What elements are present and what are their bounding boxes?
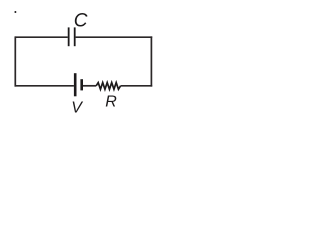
wire battery to resistor	[83, 85, 96, 87]
svg-text:R: R	[105, 94, 117, 111]
battery V short plate	[80, 79, 83, 90]
wire bottom-left (battery to left corner)	[15, 85, 74, 87]
stray dot	[14, 11, 16, 13]
wire right vertical	[150, 36, 152, 86]
resistor R zigzag	[96, 83, 120, 90]
capacitor C right plate	[74, 27, 76, 46]
wire top-left (node between C and left branch)	[15, 36, 68, 38]
svg-text:C: C	[74, 11, 88, 32]
capacitor C left plate	[68, 27, 70, 46]
wire left vertical	[14, 36, 16, 86]
wire top-right	[76, 36, 153, 38]
wire resistor to right corner	[121, 85, 153, 87]
battery V long plate	[74, 73, 77, 96]
svg-text:V: V	[71, 100, 83, 117]
